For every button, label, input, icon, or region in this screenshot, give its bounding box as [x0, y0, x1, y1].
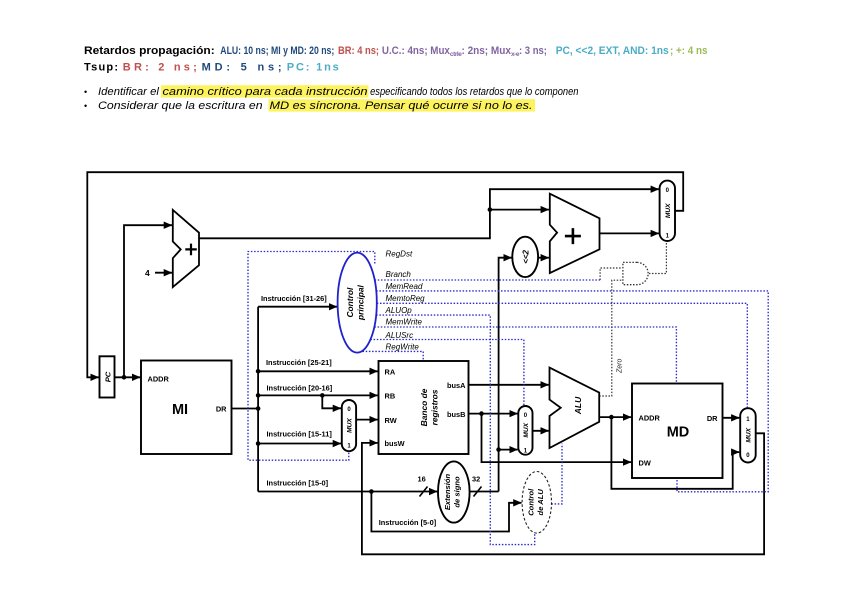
svg-text:busW: busW [385, 439, 405, 448]
svg-text:registros: registros [430, 389, 440, 425]
svg-text:MI: MI [172, 402, 188, 418]
node: junction [15-0] / [5-0] [369, 489, 374, 494]
oval ALU control [522, 472, 551, 534]
bullet 1 highlight [161, 85, 369, 97]
wire: final MUX output feedback to busW [362, 433, 764, 554]
svg-text:Instrucción [20-16]: Instrucción [20-16] [267, 383, 333, 392]
node: junction adder1 output branch [488, 207, 493, 212]
node: junction ext-out / shift branch [496, 447, 501, 452]
node: junction trunk / [15-11] [256, 441, 261, 446]
wire: branch of adder1 output into branch adder [490, 209, 549, 211]
svg-text:Retardos propagación: ALU: 10: Retardos propagación: ALU: 10 ns; MI y M… [84, 45, 708, 58]
node: junction DR / trunk [256, 406, 261, 411]
wire: constant 4 into adder1 [155, 272, 172, 274]
node: junction busB branch [479, 411, 484, 416]
wire: instruction trunk vertical [257, 307, 259, 492]
mux M2 (RegDst) [342, 400, 356, 451]
svg-text:Control: Control [527, 488, 536, 516]
memory MI (instruction memory) [141, 361, 232, 455]
wire: shift-left-2 output into branch adder lower input [538, 257, 549, 259]
svg-text:Zero: Zero [617, 359, 624, 375]
node: junction [20-16] branch [320, 393, 325, 398]
wire: busA into ALU [469, 384, 549, 386]
node: junction trunk / [25-21] [256, 369, 261, 374]
svg-text:4: 4 [145, 268, 150, 278]
svg-text:MUX: MUX [746, 427, 753, 442]
oval control principal U.C. [338, 253, 377, 353]
wire: ALUSrc control into ALUSrc MUX select [370, 340, 524, 406]
svg-text:Instrucción [15-0]: Instrucción [15-0] [267, 478, 329, 487]
wire: branch from PC-out up to adder1 input [124, 225, 172, 377]
svg-text:32: 32 [472, 475, 480, 484]
svg-text:•Considerar que la escritura e: •Considerar que la escritura en MD es sí… [84, 100, 533, 112]
wire: Branch control [375, 279, 600, 281]
wire: MemtoReg control into final MUX select [377, 303, 748, 407]
svg-text:RA: RA [385, 368, 396, 377]
wire: MI DR to instruction trunk [232, 408, 259, 410]
register PC [100, 356, 115, 397]
svg-text:RB: RB [385, 392, 396, 401]
wire: Instruccion [25-21] into RA [258, 370, 378, 372]
svg-text:Control: Control [345, 287, 355, 317]
wire: [20-16] branch into RegDst MUX input 0 [322, 395, 341, 408]
svg-text:de signo: de signo [453, 476, 462, 508]
wire: ALUSrc MUX output into ALU [533, 430, 549, 432]
svg-text:<<2: <<2 [522, 249, 531, 263]
svg-text:MUX: MUX [347, 418, 354, 433]
register file Banco de registros [379, 361, 469, 454]
oval shift-left-2 [512, 237, 538, 277]
wire: Instruccion [15-0] into sign extension [258, 491, 437, 493]
svg-text:MemtoReg: MemtoReg [386, 294, 426, 303]
wire: RegDst control loop to RegDst MUX select [248, 252, 375, 461]
wire: AND gate output to top MUX select [649, 242, 667, 274]
wire: Instruccion [20-16] into RB [258, 394, 378, 396]
wire: ALU result bypass around MD into final MUX input 0 [611, 417, 739, 489]
svg-text:DW: DW [639, 458, 651, 467]
wire: sign extension output to ALUSrc MUX input 1 [470, 450, 518, 492]
svg-text:ALUSrc: ALUSrc [385, 331, 414, 340]
svg-text:ALUOp: ALUOp [385, 306, 413, 315]
wire: RegDst MUX output into RW [356, 419, 378, 421]
wire: ALUOp control into ALU control [376, 315, 535, 544]
wire: PC feedback loop (top MUX output, top border, left border into PC) [87, 172, 683, 377]
node: junction ALU result branch [609, 415, 614, 420]
node: junction trunk / [20-16] [256, 393, 261, 398]
svg-text:busB: busB [447, 410, 465, 419]
wire: PC to MI ADDR [115, 376, 141, 378]
wire: ALU control output to ALU select [551, 444, 562, 504]
svg-text:Branch: Branch [386, 270, 412, 279]
wire: MemWrite control into MD top [374, 327, 676, 383]
wire: Instruccion [15-11] into RegDst MUX input 1 [258, 443, 341, 445]
svg-text:Instrucción [5-0]: Instrucción [5-0] [379, 518, 437, 527]
svg-text:MUX: MUX [665, 203, 672, 218]
svg-text:PC: PC [104, 371, 113, 382]
svg-text:principal: principal [356, 284, 366, 321]
node: junction PC-out / adder branch [122, 375, 127, 380]
svg-text:MD: MD [667, 425, 690, 441]
adder A1 (PC+4) [173, 210, 199, 287]
svg-text:Banco de: Banco de [419, 388, 429, 426]
mux M4 (MemtoReg write back) [740, 408, 756, 462]
mux M1 (top right, next PC) [660, 181, 675, 241]
memory MD (data memory) [632, 384, 723, 479]
svg-text:MUX: MUX [523, 422, 530, 437]
wire: busB into ALUSrc MUX input 0 [469, 413, 518, 415]
wire: Branch hook into AND gate [600, 268, 622, 280]
svg-text:Instrucción [25-21]: Instrucción [25-21] [266, 358, 332, 367]
wire: ALU result into MD ADDR [599, 416, 631, 418]
svg-text:DR: DR [707, 414, 718, 423]
adder A2 (branch target) [550, 194, 600, 273]
svg-text:busA: busA [447, 381, 466, 390]
bullet 2 highlight [269, 99, 536, 111]
svg-text:•Identificar el camino crítico: •Identificar el camino crítico para cada… [84, 86, 579, 98]
wire: branch adder output to top MUX input 1 [600, 232, 659, 234]
wire: busB branch into MD DW [482, 414, 632, 463]
wire: sign-extend output up into shift-left-2 [499, 258, 512, 450]
svg-text:Instrucción [15-11]: Instrucción [15-11] [267, 429, 333, 438]
wire: Instruccion [31-26] into control principal [258, 306, 337, 308]
svg-text:ALU: ALU [573, 396, 583, 415]
ALU [550, 368, 600, 448]
svg-text:RegWrite: RegWrite [386, 342, 420, 351]
wire: adder1 output to top MUX input 0 [199, 189, 659, 238]
svg-text:ADDR: ADDR [639, 413, 661, 422]
wire: MemRead control into MD bottom [376, 291, 768, 492]
AND gate (branch and zero) [623, 262, 648, 284]
svg-text:16: 16 [418, 475, 426, 484]
wire: Zero flag from ALU to AND gate [599, 280, 622, 396]
svg-text:MemRead: MemRead [386, 282, 423, 291]
wire: Instruccion [5-0] into ALU control [371, 492, 521, 532]
svg-text:Instrucción [31-26]: Instrucción [31-26] [261, 294, 327, 303]
svg-text:RW: RW [385, 416, 397, 425]
wire: RegWrite control into register file [363, 351, 424, 360]
svg-text:Extensión: Extensión [443, 473, 452, 510]
svg-text:RegDst: RegDst [386, 249, 413, 258]
svg-text:de ALU: de ALU [536, 489, 545, 516]
wire: MD DR into final MUX input 1 [723, 417, 740, 419]
svg-text:MemWrite: MemWrite [386, 318, 423, 327]
svg-text:ADDR: ADDR [148, 374, 170, 383]
oval sign extension [438, 461, 470, 522]
mux M3 (ALUSrc) [518, 406, 532, 455]
svg-text:DR: DR [216, 404, 227, 413]
